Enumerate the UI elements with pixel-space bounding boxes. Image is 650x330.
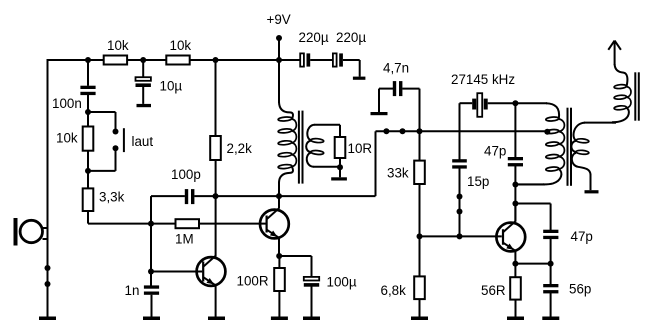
svg-text:1n: 1n <box>125 283 140 298</box>
svg-text:33k: 33k <box>387 166 409 181</box>
svg-text:10k: 10k <box>107 38 129 53</box>
svg-text:10k: 10k <box>56 130 78 145</box>
svg-text:56R: 56R <box>481 283 506 298</box>
svg-text:3,3k: 3,3k <box>99 190 125 205</box>
svg-text:100µ: 100µ <box>327 275 357 290</box>
svg-text:+9V: +9V <box>267 12 291 27</box>
svg-text:47p: 47p <box>571 229 593 244</box>
svg-text:220µ: 220µ <box>299 30 329 45</box>
svg-text:15p: 15p <box>467 174 489 189</box>
svg-text:laut: laut <box>132 134 154 149</box>
svg-text:220µ: 220µ <box>336 30 366 45</box>
svg-text:100p: 100p <box>171 167 201 182</box>
svg-text:100R: 100R <box>237 274 269 289</box>
svg-text:1M: 1M <box>175 232 194 247</box>
svg-text:10µ: 10µ <box>160 79 183 94</box>
svg-text:10k: 10k <box>170 38 192 53</box>
svg-text:6,8k: 6,8k <box>381 283 407 298</box>
svg-text:2,2k: 2,2k <box>227 141 253 156</box>
svg-text:10R: 10R <box>348 141 373 156</box>
svg-text:27145 kHz: 27145 kHz <box>451 72 515 87</box>
svg-text:100n: 100n <box>52 96 82 111</box>
svg-text:47p: 47p <box>484 143 506 158</box>
svg-text:4,7n: 4,7n <box>383 61 409 76</box>
svg-text:56p: 56p <box>569 282 591 297</box>
